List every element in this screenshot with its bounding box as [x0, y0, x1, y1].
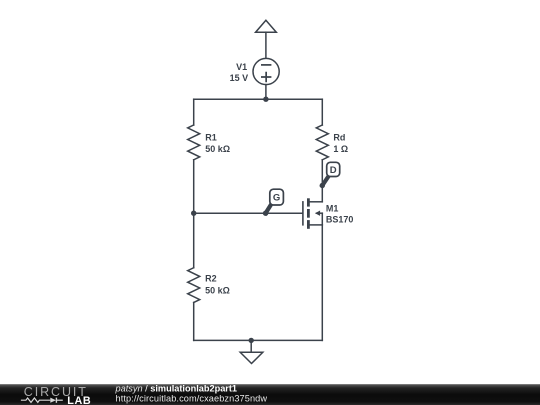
junction node D [320, 183, 325, 188]
wire bottom rail [194, 339, 323, 341]
wire gate [194, 212, 302, 214]
svg-text:R1: R1 [205, 132, 217, 142]
wire V1 to top rail [265, 85, 267, 100]
node D flag [322, 162, 339, 185]
junction node G [263, 211, 268, 216]
svg-text:50 kΩ: 50 kΩ [205, 285, 230, 295]
label Rd [333, 132, 345, 142]
label R1 [205, 132, 217, 142]
label M1 [326, 204, 339, 214]
footer bar [0, 384, 540, 405]
svg-text:patsyn / simulationlab2part1: patsyn / simulationlab2part1 [115, 384, 238, 394]
wire left rail lower [193, 303, 195, 341]
wire Rd to drain [321, 160, 323, 202]
svg-text:LAB: LAB [67, 395, 91, 405]
svg-text:R2: R2 [205, 274, 217, 284]
logo LAB text [67, 395, 91, 405]
svg-text:1 Ω: 1 Ω [333, 144, 348, 154]
svg-text:http://circuitlab.com/cxaebzn3: http://circuitlab.com/cxaebzn375ndw [116, 394, 268, 404]
logo schematic symbol [21, 398, 63, 403]
ground [240, 340, 263, 363]
resistor Rd [316, 125, 328, 160]
label R2 [205, 274, 217, 284]
svg-text:V1: V1 [236, 62, 247, 72]
power flag VDD [256, 20, 277, 32]
svg-text:15 V: 15 V [230, 73, 249, 83]
node G flag [266, 189, 284, 213]
transistor M1 [303, 198, 322, 229]
svg-text:M1: M1 [326, 204, 339, 214]
wire left rail upper [193, 99, 195, 125]
value BS170 [326, 215, 354, 225]
value 50 kOhm R1 [205, 144, 230, 154]
voltage source V1 [253, 58, 279, 84]
value 50 kOhm R2 [205, 285, 230, 295]
url [116, 394, 268, 404]
wire source to bottom rail [321, 225, 323, 341]
value 1 Ohm Rd [333, 144, 348, 154]
value 15 V [230, 73, 249, 83]
svg-text:50 kΩ: 50 kΩ [205, 144, 230, 154]
svg-text:Rd: Rd [333, 132, 345, 142]
svg-text:D: D [330, 165, 337, 176]
wire right rail upper [321, 99, 323, 125]
wire top rail [194, 98, 323, 100]
svg-text:BS170: BS170 [326, 215, 354, 225]
author and title [115, 384, 238, 394]
logo CIRCUIT text [24, 385, 88, 399]
wire flag to V1 [265, 32, 267, 58]
label V1 [236, 62, 247, 72]
junction left rail gate wire [191, 211, 196, 216]
resistor R2 [188, 268, 200, 303]
junction ground [249, 338, 254, 343]
svg-text:G: G [273, 193, 280, 204]
resistor R1 [188, 125, 200, 160]
wire left rail middle [193, 160, 195, 268]
junction top rail [263, 97, 268, 102]
